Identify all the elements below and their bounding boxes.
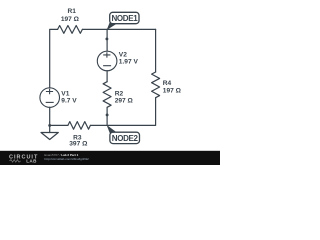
junction dot top	[105, 37, 108, 40]
footer bar	[0, 151, 220, 165]
svg-text:197 Ω: 197 Ω	[163, 87, 182, 94]
svg-text:NODE1: NODE1	[111, 14, 138, 23]
svg-text:LAB: LAB	[26, 158, 37, 163]
wire bottom left segment	[50, 124, 68, 126]
wire R2 bottom to node	[106, 107, 108, 125]
wire top to right corner	[82, 28, 155, 30]
wire V1 bottom to junction	[49, 107, 51, 125]
svg-text:9.7 V: 9.7 V	[61, 97, 77, 104]
svg-text:R1: R1	[67, 8, 76, 15]
wire left vertical + top-left segment	[50, 29, 58, 87]
logo CircuitLab	[9, 155, 38, 164]
resistor R3	[68, 122, 91, 130]
svg-text:V2: V2	[119, 52, 127, 59]
resistor R4	[152, 72, 160, 98]
svg-text:297 Ω: 297 Ω	[115, 98, 134, 105]
node NODE2	[107, 125, 140, 144]
wire V2 bottom to R2	[106, 71, 108, 82]
resistor R2	[103, 82, 111, 108]
svg-text:http://circuitlab.com/c6ku3g4h: http://circuitlab.com/c6ku3g4h92	[44, 157, 89, 161]
junction dot mid	[106, 113, 109, 116]
voltage source V1	[40, 88, 60, 108]
wire R3 to node2	[90, 124, 107, 126]
wire right vertical upper	[155, 29, 157, 72]
wire middle top stub	[106, 29, 108, 51]
wire right vertical lower + bottom-right segment	[107, 98, 156, 126]
svg-text:R4: R4	[163, 80, 172, 87]
voltage source V2	[97, 51, 117, 71]
svg-text:R2: R2	[115, 91, 124, 98]
resistor R1	[58, 26, 83, 34]
svg-text:197 Ω: 197 Ω	[61, 16, 80, 23]
ground	[41, 125, 58, 139]
svg-text:NODE2: NODE2	[112, 134, 139, 143]
svg-text:1.97 V: 1.97 V	[119, 59, 139, 66]
node NODE1	[107, 12, 139, 30]
svg-text:397 Ω: 397 Ω	[69, 141, 88, 148]
junction dot bottom-left	[48, 124, 51, 127]
